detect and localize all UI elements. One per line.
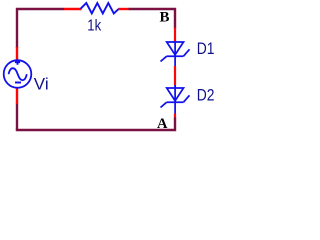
wire top-left maroon segment — [17, 9, 64, 48]
svg-text:1k: 1k — [87, 17, 101, 34]
diode D1 (zener) — [161, 42, 190, 66]
resistor R 1k — [81, 3, 119, 14]
diode D2 (zener) — [161, 88, 190, 114]
source sine wave — [9, 68, 27, 80]
wire bottom-left maroon vertical — [16, 104, 18, 131]
wire red below source — [16, 88, 18, 105]
svg-text:Vi: Vi — [34, 74, 49, 93]
svg-text:D1: D1 — [197, 40, 215, 58]
wire red below D2 — [174, 114, 176, 119]
wire red above D1 — [174, 28, 176, 43]
source minus terminal — [15, 82, 21, 84]
wire blue stub above D2 — [174, 85, 176, 88]
source plus terminal — [15, 60, 20, 65]
svg-text:B: B — [160, 10, 170, 26]
source Vi circle — [4, 60, 32, 88]
svg-text:D2: D2 — [197, 87, 215, 105]
wire left vertical red above source — [16, 47, 18, 60]
wire top red segment left of resistor — [64, 8, 82, 10]
wire top red segment right of resistor — [119, 8, 129, 10]
wire red between D1 and D2 — [174, 66, 176, 85]
wire bottom-right maroon — [16, 118, 175, 131]
wire top-right maroon segment — [129, 9, 176, 29]
